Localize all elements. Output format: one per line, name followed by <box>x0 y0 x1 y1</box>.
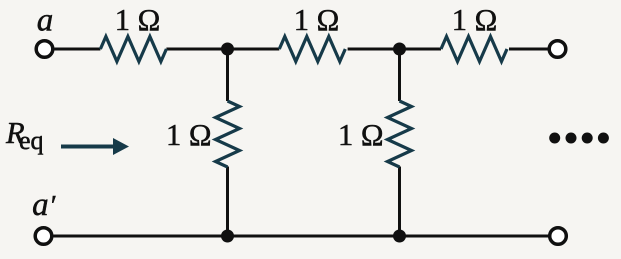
terminal a' (open circle, bottom left) <box>35 228 52 245</box>
svg-text:1 Ω: 1 Ω <box>166 118 212 152</box>
terminal a (open circle, top left) <box>36 41 53 58</box>
resistor R5 (shunt at node 2, 1 ohm) <box>388 101 412 167</box>
junction node bottom 2 <box>393 230 406 243</box>
wire: bottom rail from terminal a' to right terminal <box>54 235 549 238</box>
resistor R3 (series, 1 ohm) <box>441 37 507 62</box>
wire: vertical branch at node 1 (x=227.5) <box>226 49 229 236</box>
terminal top right (open circle) <box>549 41 566 58</box>
svg-text:1 Ω: 1 Ω <box>294 3 340 37</box>
svg-text:a′: a′ <box>32 187 56 223</box>
resistor R4 (shunt at node 1, 1 ohm) <box>216 101 240 167</box>
svg-text:a: a <box>37 3 54 39</box>
wire: top rail from terminal a to right terminal <box>55 48 549 51</box>
junction node top 2 <box>393 43 406 56</box>
resistor R1 (series, 1 ohm) <box>100 37 166 62</box>
junction node top 1 <box>221 43 234 56</box>
continuation dots (ellipsis) <box>549 133 560 144</box>
arrow (Req looking into network) <box>61 145 114 149</box>
svg-text:1 Ω: 1 Ω <box>452 3 498 37</box>
resistor R2 (series, 1 ohm) <box>279 37 345 62</box>
junction node bottom 1 <box>221 230 234 243</box>
svg-text:eq: eq <box>19 126 44 155</box>
terminal bottom right (open circle) <box>550 228 567 245</box>
wire: vertical branch at node 2 (x=399.5) <box>398 49 401 236</box>
svg-text:1 Ω: 1 Ω <box>115 3 161 37</box>
svg-text:1 Ω: 1 Ω <box>338 118 384 152</box>
